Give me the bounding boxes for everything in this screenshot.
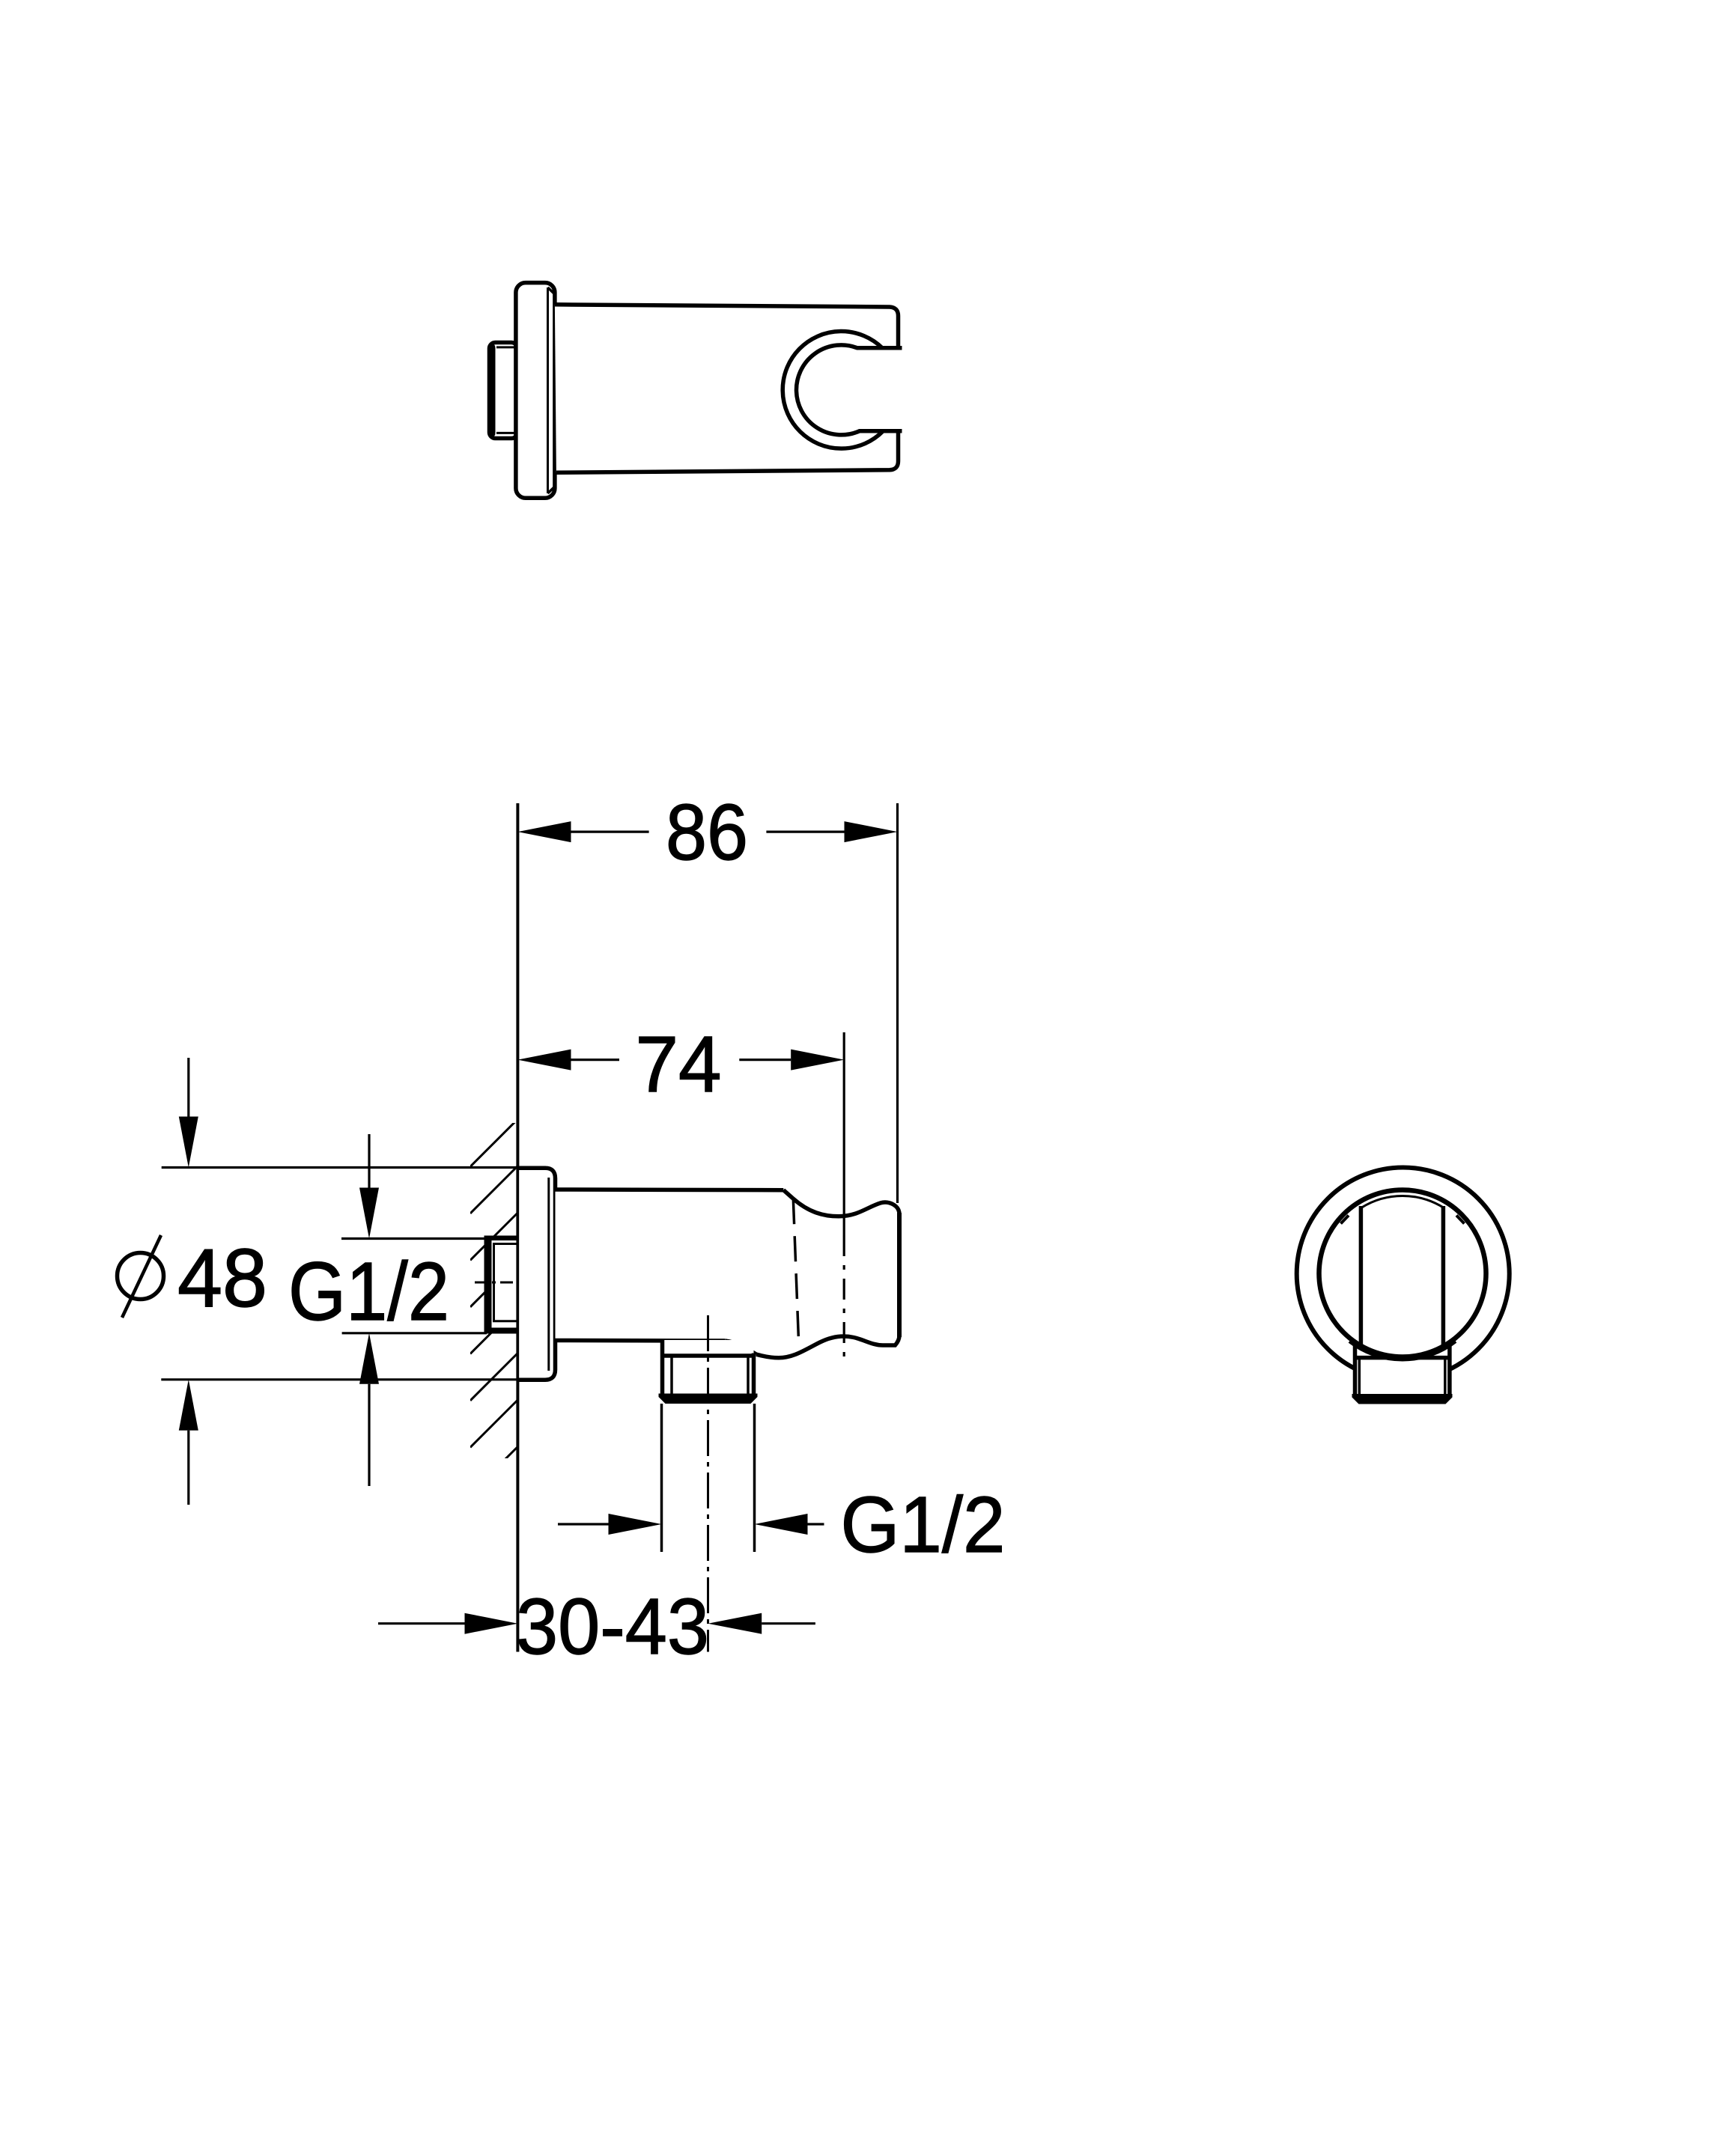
svg-text:G1/2: G1/2 [841, 1481, 1006, 1569]
slot notch lines top view [870, 346, 902, 350]
dim G1/2 outlet [558, 1481, 1006, 1569]
holder body side view [556, 1190, 900, 1358]
escutcheon flange side view [517, 1168, 555, 1380]
outlet nipple side view [659, 1340, 758, 1552]
escutcheon flange top view [516, 283, 555, 499]
svg-text:74: 74 [636, 1020, 722, 1109]
dim G1/2 wall thread extension lines + arrows [341, 1134, 518, 1486]
dim 86 [517, 788, 897, 1203]
wall hatching [470, 1119, 517, 1494]
dim 30-43 [378, 1583, 815, 1671]
svg-text:48: 48 [177, 1232, 267, 1324]
hidden edge dashed [793, 1199, 798, 1340]
wall face line [516, 803, 519, 1652]
centerline of outlet [707, 1315, 709, 1652]
dim 74 [517, 1020, 844, 1360]
dim D48 extension lines + arrows [161, 1058, 518, 1505]
svg-text:G1/2: G1/2 [288, 1246, 449, 1338]
C-clip ring top view [783, 332, 883, 449]
centerline of wall thread [475, 1282, 515, 1284]
G1/2 wall thread side view [484, 1236, 519, 1334]
svg-text:30-43: 30-43 [516, 1583, 709, 1671]
holder body top view [555, 305, 899, 473]
texts D48 G1/2 [118, 1232, 450, 1338]
svg-text:86: 86 [666, 788, 748, 877]
thread knob top view [488, 343, 518, 439]
